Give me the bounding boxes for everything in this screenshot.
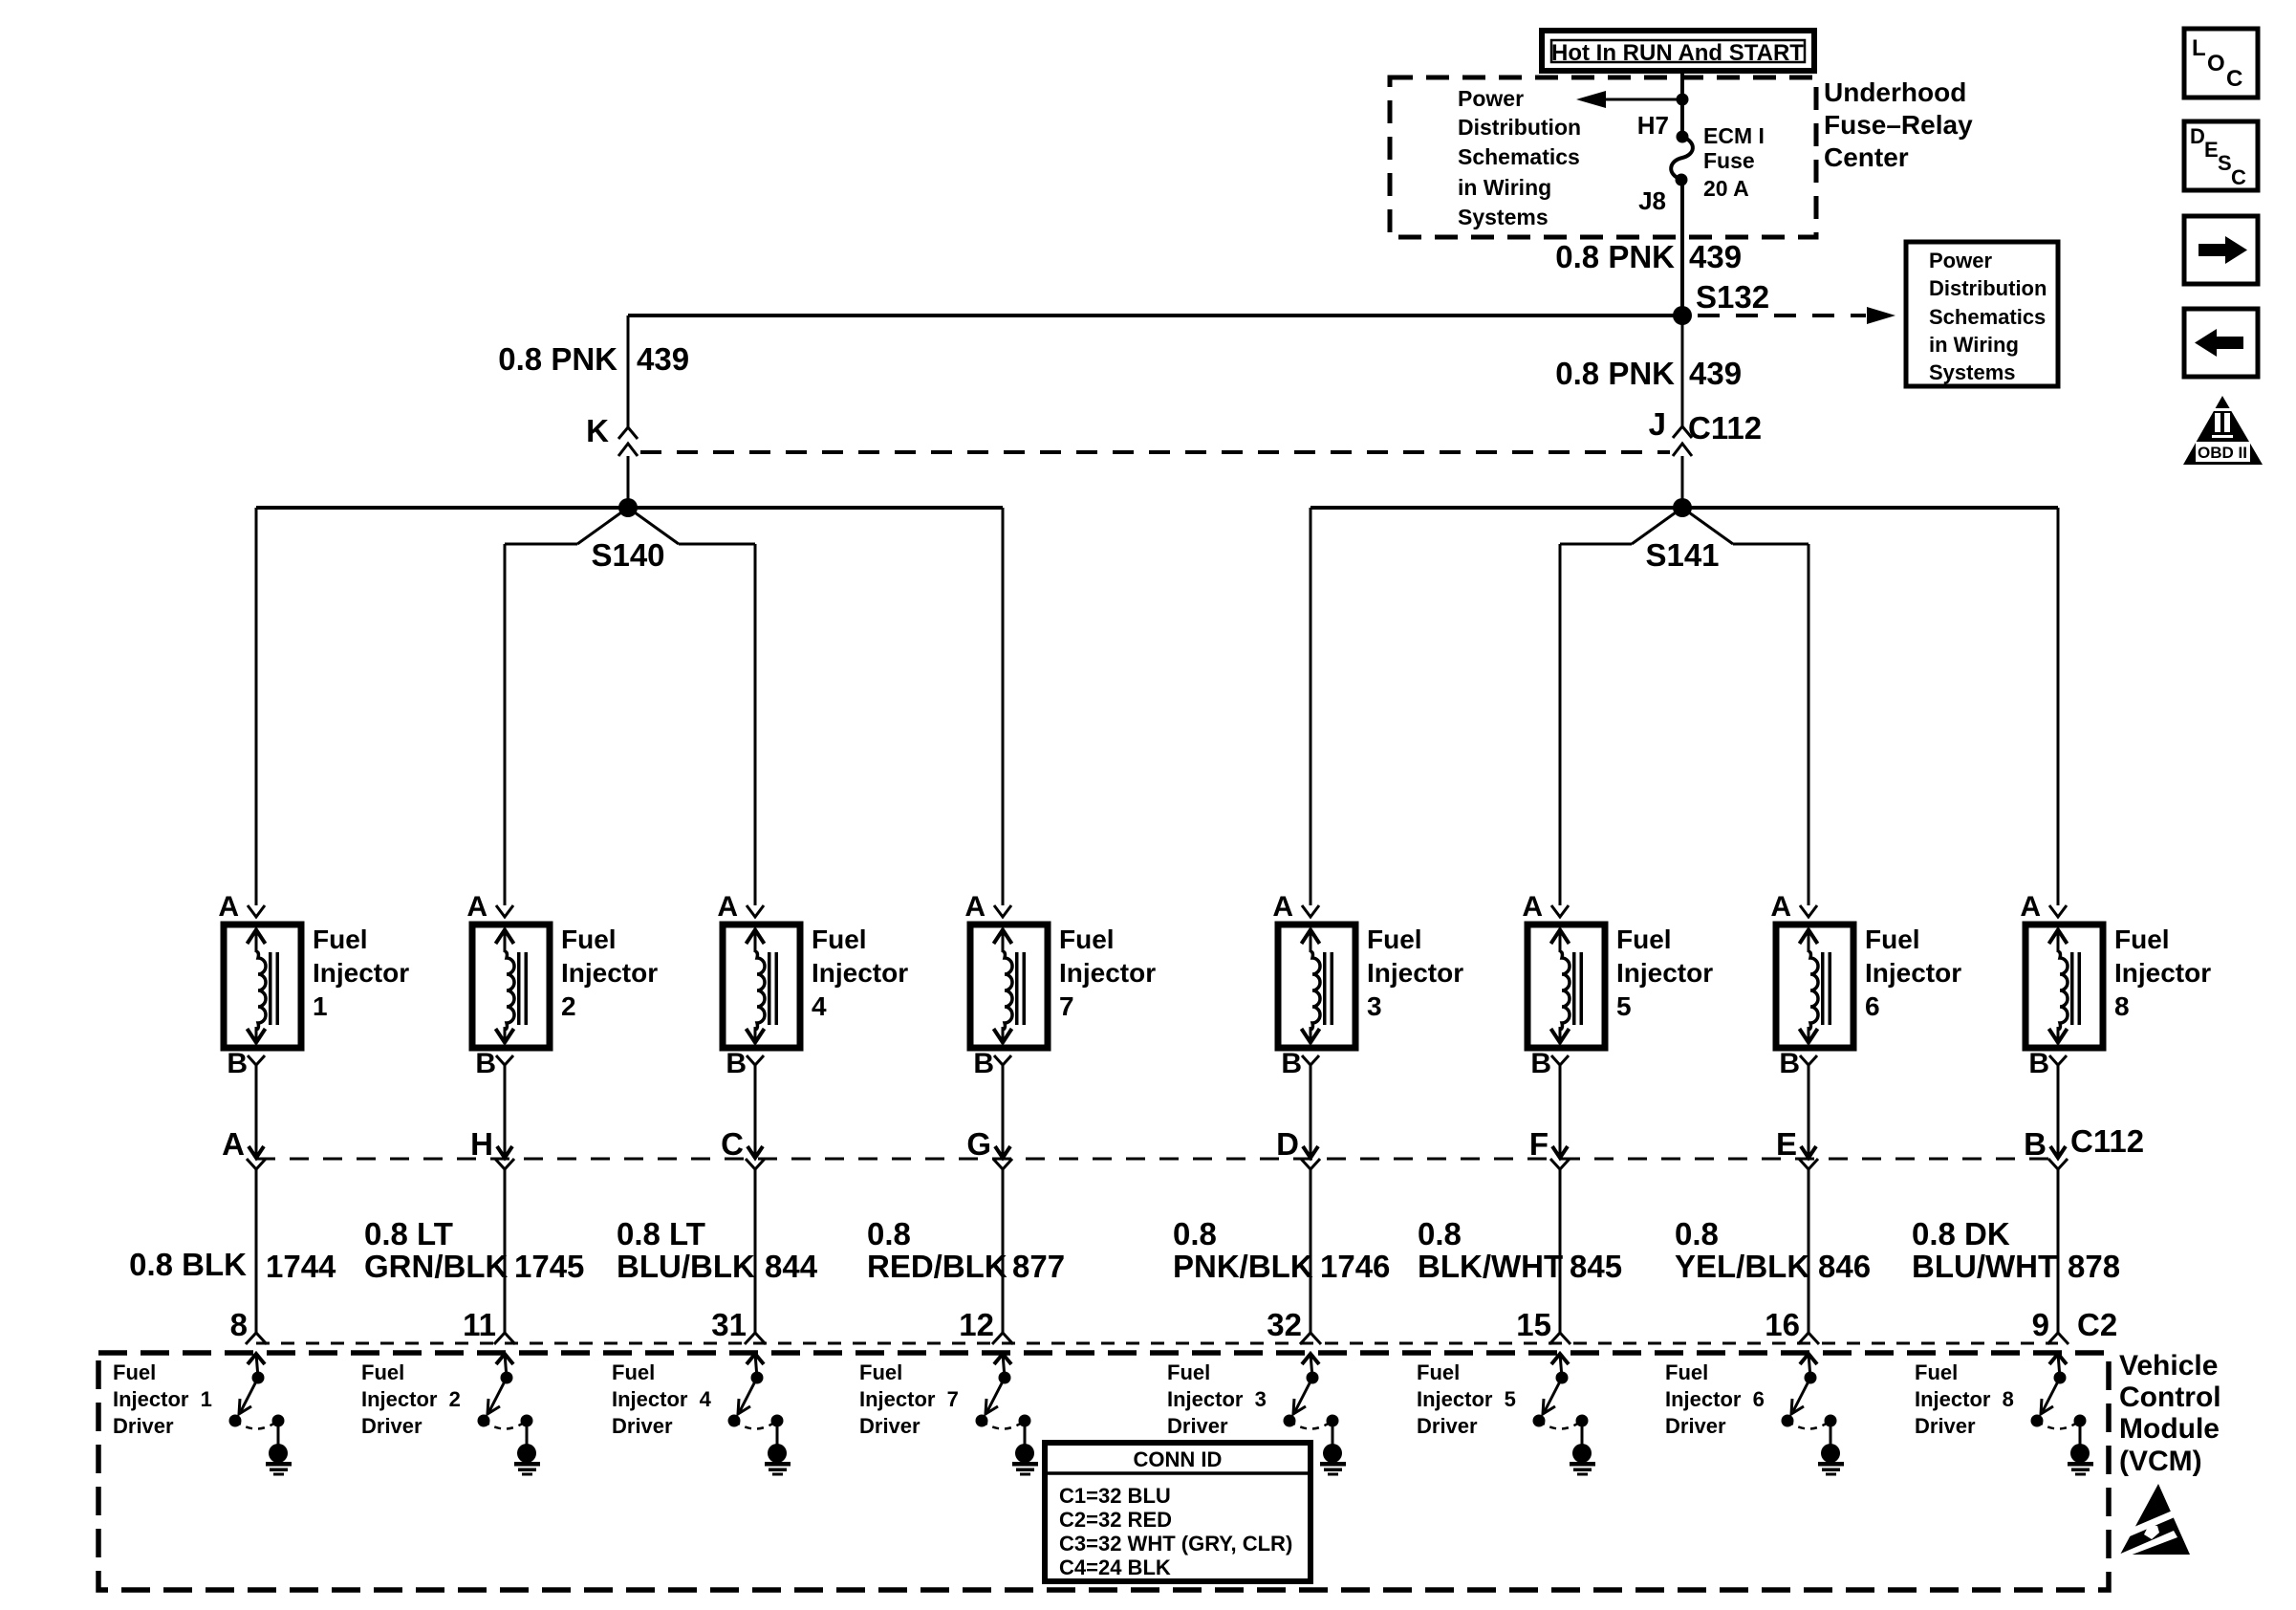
svg-text:Schematics: Schematics: [1458, 144, 1580, 169]
svg-text:Fuel: Fuel: [1417, 1360, 1460, 1384]
wire: fuel injector 5 pin B to connector C112: [1550, 1065, 1570, 1169]
wire: splice to fuel injector 6 pin A: [1808, 544, 1810, 905]
svg-text:Fuel: Fuel: [1665, 1360, 1708, 1384]
svg-text:Fuel: Fuel: [1865, 925, 1920, 954]
svg-text:Power: Power: [1929, 249, 1992, 272]
svg-text:0.8: 0.8: [867, 1216, 911, 1251]
svg-text:Distribution: Distribution: [1929, 276, 2047, 300]
fuel injector 8 driver (switch): [2031, 1354, 2087, 1446]
VCM dashed box: [98, 1353, 2109, 1590]
ground: fuel injector 3 driver: [1320, 1444, 1346, 1476]
label: Underhood Fuse-Relay Center: [1824, 77, 1973, 172]
svg-text:Underhood: Underhood: [1824, 77, 1966, 107]
label: Fuel Injector 5 Driver: [1417, 1360, 1516, 1438]
icon: right arrow box: [2184, 216, 2258, 284]
svg-text:S: S: [2218, 151, 2232, 175]
label S132: [1696, 279, 1769, 315]
label: connector C112 pin G: [966, 1126, 991, 1162]
svg-text:439: 439: [1689, 356, 1742, 391]
icon: OBD II symbol: [2183, 396, 2263, 465]
svg-text:1746: 1746: [1320, 1249, 1390, 1284]
svg-text:OBD II: OBD II: [2198, 444, 2247, 462]
wire: splice to fuel injector 4 pin A: [754, 544, 757, 905]
svg-text:6: 6: [1865, 991, 1880, 1021]
ground: fuel injector 6 driver: [1818, 1444, 1844, 1476]
wire: fuel injector 6 pin B to connector C112: [1799, 1065, 1818, 1169]
svg-text:4: 4: [812, 991, 827, 1021]
svg-text:1745: 1745: [514, 1249, 584, 1284]
wire: connector C112 to VCM pin 12: [992, 1169, 1013, 1344]
svg-text:5: 5: [1616, 991, 1632, 1021]
wire: fuel injector 1 pin B to connector C112: [247, 1065, 266, 1169]
svg-text:2: 2: [561, 991, 576, 1021]
svg-text:C: C: [721, 1126, 744, 1162]
svg-text:A: A: [218, 891, 239, 923]
svg-text:Systems: Systems: [1929, 360, 2016, 384]
svg-text:A: A: [1272, 891, 1293, 923]
svg-text:Hot In RUN And START: Hot In RUN And START: [1551, 40, 1804, 66]
svg-text:Fuel: Fuel: [113, 1360, 156, 1384]
fuse ECM I 20 A: [1671, 131, 1693, 186]
label: VCM pin 16: [1765, 1307, 1800, 1342]
label: Power Distribution Schematics in Wiring Systems (inside fuse center): [1458, 86, 1581, 229]
dashed arrow: S132 to Power Distribution Schematics (right): [1698, 307, 1895, 324]
label: wire 0.8 LT GRN/BLK 1745: [364, 1216, 584, 1284]
svg-text:Driver: Driver: [612, 1414, 673, 1438]
splice S141: [1310, 498, 2058, 544]
wire: fuel injector 3 pin B to connector C112: [1301, 1065, 1320, 1169]
svg-text:ECM I: ECM I: [1703, 123, 1765, 148]
svg-text:Injector: Injector: [1616, 958, 1713, 988]
label: VCM pin 15: [1516, 1307, 1551, 1342]
svg-text:YEL/BLK: YEL/BLK: [1675, 1249, 1809, 1284]
label: Fuel Injector 8 Driver: [1915, 1360, 2014, 1438]
splice S132: [1673, 306, 1692, 325]
svg-text:0.8 DK: 0.8 DK: [1912, 1216, 2010, 1251]
wire: fuel injector 4 pin B to connector C112: [746, 1065, 765, 1169]
svg-text:Fuel: Fuel: [612, 1360, 655, 1384]
svg-text:0.8 LT: 0.8 LT: [364, 1216, 453, 1251]
wire: fuse J8 down to splice S132: [1680, 180, 1684, 315]
label S140: [591, 537, 664, 573]
svg-text:B: B: [2024, 1126, 2047, 1162]
svg-text:8: 8: [2114, 991, 2130, 1021]
arrow: feed to Power Distribution Schematics (left): [1576, 91, 1682, 108]
svg-text:Fuel: Fuel: [1616, 925, 1672, 954]
svg-text:B: B: [227, 1048, 248, 1079]
label: Fuel Injector 7 Driver: [859, 1360, 959, 1438]
label: VCM pin 9: [2032, 1307, 2049, 1342]
svg-text:O: O: [2207, 51, 2225, 76]
svg-text:0.8 PNK: 0.8 PNK: [498, 341, 617, 377]
wire: fuel injector 2 pin B to connector C112: [495, 1065, 514, 1169]
svg-text:A: A: [1522, 891, 1543, 923]
svg-text:D: D: [2190, 124, 2205, 148]
svg-text:C4=24 BLK: C4=24 BLK: [1059, 1556, 1171, 1579]
svg-text:Control: Control: [2119, 1382, 2221, 1413]
svg-text:in Wiring: in Wiring: [1458, 175, 1551, 200]
svg-text:C3=32 WHT (GRY, CLR): C3=32 WHT (GRY, CLR): [1059, 1532, 1292, 1556]
svg-text:B: B: [1281, 1048, 1302, 1079]
svg-text:A: A: [466, 891, 487, 923]
label: C112 (top): [1688, 410, 1762, 446]
label: VCM pin 32: [1267, 1307, 1302, 1342]
fuel injector 4 driver (switch): [728, 1354, 784, 1446]
svg-text:Vehicle: Vehicle: [2119, 1350, 2218, 1382]
power source box: Hot In RUN And START: [1542, 31, 1814, 71]
fuel injector 1: [218, 891, 409, 1079]
svg-text:Injector: Injector: [2114, 958, 2211, 988]
label: VCM pin 12: [959, 1307, 994, 1342]
svg-text:BLU/WHT: BLU/WHT: [1912, 1249, 2057, 1284]
wire: connector C112 to VCM pin 32: [1300, 1169, 1321, 1344]
wire: S132 left branch down to connector C112 pin K: [627, 315, 630, 427]
wire: splice to fuel injector 3 pin A: [1310, 508, 1312, 905]
svg-text:Fuel: Fuel: [859, 1360, 902, 1384]
label: connector C112 pin A: [222, 1126, 245, 1162]
ground: fuel injector 8 driver: [2068, 1444, 2093, 1476]
svg-text:439: 439: [637, 341, 689, 377]
svg-text:B: B: [726, 1048, 747, 1079]
svg-text:12: 12: [959, 1307, 994, 1342]
wire: connector C112 to VCM pin 31: [745, 1169, 766, 1344]
label: connector C112 pin H: [470, 1126, 493, 1162]
svg-text:E: E: [1776, 1126, 1797, 1162]
svg-text:Systems: Systems: [1458, 205, 1549, 229]
svg-text:Driver: Driver: [113, 1414, 174, 1438]
svg-text:Driver: Driver: [859, 1414, 921, 1438]
svg-text:Injector 6: Injector 6: [1665, 1387, 1765, 1411]
svg-text:845: 845: [1570, 1249, 1622, 1284]
svg-text:(VCM): (VCM): [2119, 1446, 2202, 1477]
svg-text:Injector 4: Injector 4: [612, 1387, 712, 1411]
svg-text:Driver: Driver: [1417, 1414, 1478, 1438]
wire: splice to fuel injector 8 pin A: [2057, 508, 2060, 905]
ground: fuel injector 4 driver: [765, 1444, 791, 1476]
svg-text:C112: C112: [2070, 1123, 2144, 1159]
wire: connector C112 to VCM pin 8: [246, 1169, 267, 1344]
svg-text:Fuel: Fuel: [561, 925, 617, 954]
svg-text:S141: S141: [1645, 537, 1719, 573]
dashed line: connector C112 (top): [640, 450, 1670, 454]
svg-text:0.8 LT: 0.8 LT: [617, 1216, 705, 1251]
icon: ESD sensitive device symbol: [2116, 1484, 2195, 1556]
svg-text:Driver: Driver: [1167, 1414, 1228, 1438]
svg-text:Fuel: Fuel: [1367, 925, 1422, 954]
svg-text:Fuel: Fuel: [812, 925, 867, 954]
svg-text:G: G: [966, 1126, 991, 1162]
svg-text:GRN/BLK: GRN/BLK: [364, 1249, 508, 1284]
label: wire 0.8 LT BLU/BLK 844: [617, 1216, 818, 1284]
svg-text:878: 878: [2068, 1249, 2120, 1284]
svg-text:Injector 3: Injector 3: [1167, 1387, 1267, 1411]
wire: connector C112 to VCM pin 16: [1798, 1169, 1819, 1344]
wire: connector C112 to VCM pin 9: [2047, 1169, 2069, 1344]
fuel injector 8: [2020, 891, 2211, 1079]
svg-text:Fuel: Fuel: [361, 1360, 404, 1384]
label: wire 0.8 BLK 1744: [129, 1247, 336, 1284]
svg-text:0.8: 0.8: [1418, 1216, 1462, 1251]
label: connector C112 pin D: [1276, 1126, 1299, 1162]
svg-text:C2=32 RED: C2=32 RED: [1059, 1508, 1172, 1532]
svg-text:Injector 1: Injector 1: [113, 1387, 212, 1411]
dashed line: connector C112 (lower): [256, 1158, 2058, 1161]
svg-text:Distribution: Distribution: [1458, 115, 1581, 140]
svg-text:Fuel: Fuel: [1167, 1360, 1210, 1384]
svg-text:1744: 1744: [266, 1249, 336, 1284]
label: Vehicle Control Module (VCM): [2119, 1350, 2221, 1477]
svg-text:Fuel: Fuel: [1059, 925, 1115, 954]
svg-text:15: 15: [1516, 1307, 1551, 1342]
svg-text:Fuel: Fuel: [1915, 1360, 1958, 1384]
svg-text:in Wiring: in Wiring: [1929, 333, 2019, 357]
svg-text:32: 32: [1267, 1307, 1302, 1342]
svg-text:7: 7: [1059, 991, 1074, 1021]
label: connector C112 pin F: [1529, 1126, 1549, 1162]
svg-text:844: 844: [765, 1249, 818, 1284]
svg-text:B: B: [475, 1048, 496, 1079]
svg-text:S132: S132: [1696, 279, 1769, 315]
label: pin J: [1649, 406, 1666, 442]
svg-text:Injector: Injector: [313, 958, 409, 988]
icon: LOC reference box: [2184, 29, 2258, 98]
svg-text:0.8 BLK: 0.8 BLK: [129, 1247, 247, 1282]
label: fuse pin H7: [1637, 111, 1669, 140]
label: 0.8 PNK 439 (pin J feed): [1555, 356, 1742, 391]
fuel injector 5: [1522, 891, 1713, 1079]
svg-text:Injector: Injector: [812, 958, 908, 988]
label: Fuel Injector 4 Driver: [612, 1360, 712, 1438]
fuel injector 7: [964, 891, 1156, 1079]
svg-text:J8: J8: [1638, 186, 1666, 215]
fuel injector 6 driver (switch): [1782, 1354, 1837, 1446]
svg-text:A: A: [222, 1126, 245, 1162]
label: VCM pin 11: [463, 1307, 496, 1342]
wire: S132 branch to left header: [628, 314, 1682, 317]
wire: splice to fuel injector 7 pin A: [1002, 508, 1005, 905]
node: tap to power distribution: [1677, 94, 1689, 106]
svg-text:11: 11: [463, 1307, 496, 1342]
ground: fuel injector 5 driver: [1570, 1444, 1595, 1476]
svg-text:Fuel: Fuel: [2114, 925, 2170, 954]
wire: pin K to splice S140: [627, 456, 630, 508]
svg-text:Center: Center: [1824, 142, 1909, 172]
svg-text:Driver: Driver: [1665, 1414, 1726, 1438]
svg-text:Injector 2: Injector 2: [361, 1387, 461, 1411]
label: 0.8 PNK 439 (above S132): [1555, 239, 1742, 274]
svg-text:Injector: Injector: [561, 958, 658, 988]
label: C112 (lower): [2070, 1123, 2144, 1159]
ground: fuel injector 2 driver: [514, 1444, 540, 1476]
label: Fuel Injector 1 Driver: [113, 1360, 212, 1438]
wire: connector C112 to VCM pin 15: [1549, 1169, 1570, 1344]
svg-text:Injector 7: Injector 7: [859, 1387, 959, 1411]
svg-text:C112: C112: [1688, 410, 1762, 446]
label: pin K: [586, 413, 609, 448]
label: connector C112 pin B: [2024, 1126, 2047, 1162]
label: wire 0.8 RED/BLK 877: [867, 1216, 1065, 1284]
svg-text:9: 9: [2032, 1307, 2049, 1342]
svg-text:A: A: [2020, 891, 2041, 923]
fuel injector 2: [466, 891, 658, 1079]
label: wire 0.8 PNK/BLK 1746: [1173, 1216, 1390, 1284]
splice S140: [256, 498, 1003, 544]
fuel injector 2 driver (switch): [478, 1354, 533, 1446]
svg-text:16: 16: [1765, 1307, 1800, 1342]
svg-text:Injector: Injector: [1367, 958, 1463, 988]
wire: pin J to splice S141: [1681, 456, 1684, 508]
svg-text:H7: H7: [1637, 111, 1669, 140]
label: wire 0.8 BLK/WHT 845: [1418, 1216, 1622, 1284]
label: connector C2: [2077, 1307, 2117, 1342]
fuel injector 3: [1272, 891, 1463, 1079]
fuel injector 1 driver (switch): [229, 1354, 285, 1446]
ground: fuel injector 1 driver: [266, 1444, 292, 1476]
svg-text:B: B: [1779, 1048, 1800, 1079]
box: Power Distribution Schematics in Wiring Systems: [1906, 242, 2058, 386]
wire: fuel injector 8 pin B to connector C112: [2048, 1065, 2068, 1169]
icon: DESC reference box: [2184, 121, 2258, 190]
svg-text:E: E: [2204, 138, 2219, 162]
label: VCM pin 31: [711, 1307, 747, 1342]
ground: fuel injector 7 driver: [1012, 1444, 1038, 1476]
svg-text:8: 8: [230, 1307, 248, 1342]
label: connector C112 pin C: [721, 1126, 744, 1162]
fuel injector 4: [717, 891, 908, 1079]
svg-text:Fuel: Fuel: [313, 925, 368, 954]
fuel injector 7 driver (switch): [976, 1354, 1031, 1446]
svg-text:C: C: [2231, 165, 2246, 189]
svg-text:Injector 8: Injector 8: [1915, 1387, 2014, 1411]
fuel injector 6: [1770, 891, 1961, 1079]
wire: battery feed from Hot In RUN And START: [1680, 71, 1684, 136]
svg-text:Schematics: Schematics: [1929, 305, 2046, 329]
svg-text:B: B: [2028, 1048, 2049, 1079]
svg-text:31: 31: [711, 1307, 747, 1342]
svg-text:0.8: 0.8: [1173, 1216, 1217, 1251]
underhood fuse-relay center dashed box: [1390, 77, 1816, 237]
svg-text:Driver: Driver: [1915, 1414, 1976, 1438]
label: fuse pin J8: [1638, 186, 1666, 215]
connector C112 pin K chevrons: [618, 427, 638, 456]
svg-text:J: J: [1649, 406, 1666, 442]
wire: splice to fuel injector 2 pin A: [504, 544, 507, 905]
svg-text:3: 3: [1367, 991, 1382, 1021]
svg-text:CONN ID: CONN ID: [1134, 1447, 1223, 1471]
svg-text:BLU/BLK: BLU/BLK: [617, 1249, 755, 1284]
CONN ID table: [1045, 1443, 1310, 1581]
svg-text:K: K: [586, 413, 609, 448]
label: VCM pin 8: [230, 1307, 248, 1342]
svg-text:439: 439: [1689, 239, 1742, 274]
svg-text:0.8 PNK: 0.8 PNK: [1555, 356, 1675, 391]
svg-text:BLK/WHT: BLK/WHT: [1418, 1249, 1563, 1284]
svg-text:C1=32 BLU: C1=32 BLU: [1059, 1484, 1171, 1508]
svg-text:H: H: [470, 1126, 493, 1162]
fuel injector 5 driver (switch): [1533, 1354, 1589, 1446]
label: 0.8 PNK 439 (pin K feed): [498, 341, 689, 377]
svg-text:Module: Module: [2119, 1413, 2220, 1445]
label: wire 0.8 DK BLU/WHT 878: [1912, 1216, 2120, 1284]
label: wire 0.8 YEL/BLK 846: [1675, 1216, 1871, 1284]
label: Fuel Injector 2 Driver: [361, 1360, 461, 1438]
svg-text:Injector: Injector: [1865, 958, 1961, 988]
svg-text:0.8: 0.8: [1675, 1216, 1719, 1251]
label: ECM I Fuse 20 A: [1703, 123, 1765, 201]
label: Fuel Injector 3 Driver: [1167, 1360, 1267, 1438]
svg-text:A: A: [964, 891, 986, 923]
svg-text:1: 1: [313, 991, 328, 1021]
svg-text:877: 877: [1012, 1249, 1065, 1284]
svg-text:C: C: [2226, 66, 2242, 92]
svg-text:D: D: [1276, 1126, 1299, 1162]
svg-text:0.8 PNK: 0.8 PNK: [1555, 239, 1675, 274]
label: connector C112 pin E: [1776, 1126, 1797, 1162]
svg-text:RED/BLK: RED/BLK: [867, 1249, 1007, 1284]
wire: connector C112 to VCM pin 11: [494, 1169, 515, 1344]
wire: S132 down to connector C112 pin J: [1681, 315, 1684, 426]
svg-text:C2: C2: [2077, 1307, 2117, 1342]
svg-text:A: A: [717, 891, 738, 923]
wire: splice to fuel injector 5 pin A: [1559, 544, 1562, 905]
svg-text:F: F: [1529, 1126, 1549, 1162]
dashed line: connector C2: [256, 1342, 2058, 1345]
svg-text:Power: Power: [1458, 86, 1524, 111]
svg-text:20 A: 20 A: [1703, 176, 1749, 201]
wire: splice to fuel injector 1 pin A: [255, 508, 258, 905]
svg-text:A: A: [1770, 891, 1791, 923]
svg-text:Injector: Injector: [1059, 958, 1156, 988]
svg-text:Fuse: Fuse: [1703, 148, 1755, 173]
svg-text:B: B: [973, 1048, 994, 1079]
wire: fuel injector 7 pin B to connector C112: [993, 1065, 1012, 1169]
svg-text:Driver: Driver: [361, 1414, 422, 1438]
svg-text:846: 846: [1818, 1249, 1871, 1284]
svg-text:S140: S140: [591, 537, 664, 573]
label S141: [1645, 537, 1719, 573]
svg-text:Fuse–Relay: Fuse–Relay: [1824, 110, 1973, 140]
icon: left arrow box: [2184, 309, 2258, 377]
svg-text:PNK/BLK: PNK/BLK: [1173, 1249, 1313, 1284]
svg-text:B: B: [1530, 1048, 1551, 1079]
svg-text:L: L: [2192, 35, 2206, 61]
fuel injector 3 driver (switch): [1284, 1354, 1339, 1446]
label: Fuel Injector 6 Driver: [1665, 1360, 1765, 1438]
connector C112 pin J chevrons: [1673, 426, 1692, 456]
svg-text:Injector 5: Injector 5: [1417, 1387, 1516, 1411]
